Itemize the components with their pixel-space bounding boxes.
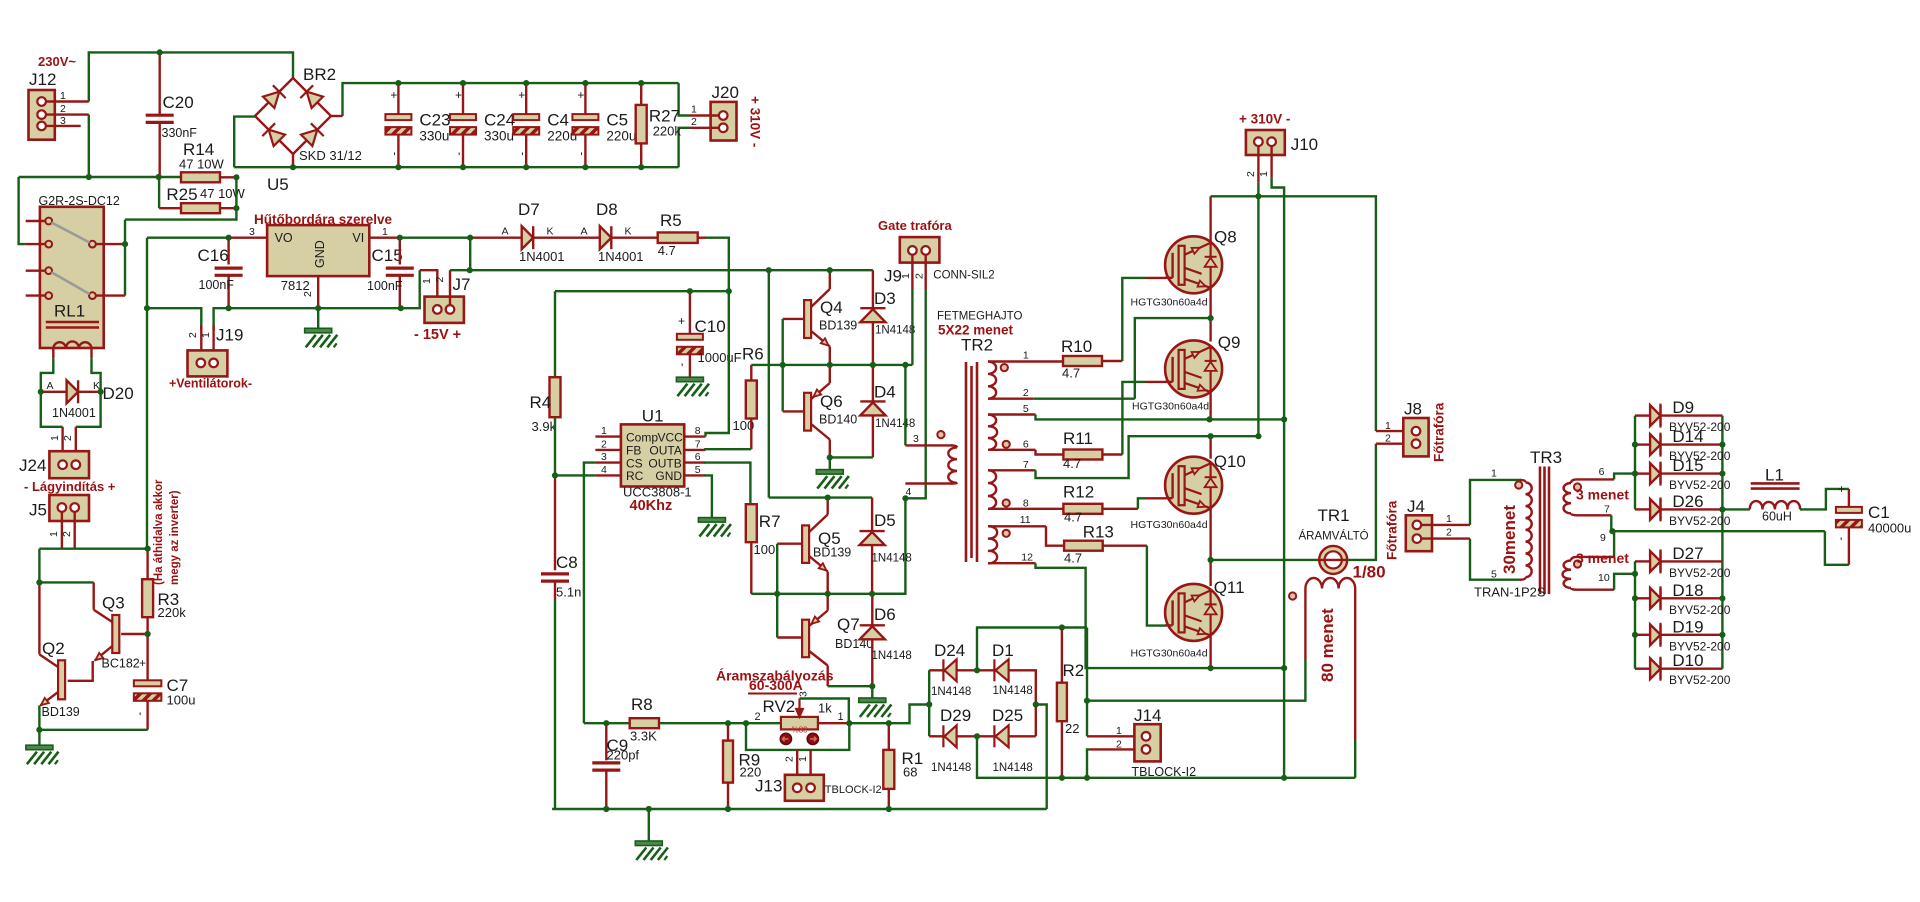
R2 top lead bbox=[1061, 628, 1063, 683]
D6 cathode lead bbox=[871, 594, 873, 626]
svg-text:': ' bbox=[681, 361, 683, 375]
svg-text:4.7: 4.7 bbox=[1063, 456, 1081, 471]
svg-text:1k: 1k bbox=[818, 701, 832, 716]
svg-text:1N4148: 1N4148 bbox=[931, 686, 971, 698]
J9 pin2 lead bbox=[925, 255, 927, 289]
wire quad top to R2 top row bbox=[977, 628, 1087, 671]
svg-text:1: 1 bbox=[797, 756, 809, 762]
RL1 coil arcs bbox=[53, 341, 91, 348]
svg-text:1: 1 bbox=[1491, 468, 1497, 480]
svg-text:+ 310V -: + 310V - bbox=[748, 96, 763, 147]
Q11 collector lead bbox=[1209, 560, 1211, 586]
svg-text:3: 3 bbox=[60, 115, 66, 127]
junction TR2 pin4 branch bbox=[902, 495, 908, 501]
TR2 W1 phase dot bbox=[1001, 364, 1008, 371]
svg-text:BR2: BR2 bbox=[303, 65, 336, 84]
capacitor C1 bbox=[1836, 507, 1862, 528]
svg-text:8: 8 bbox=[1023, 497, 1029, 509]
svg-text:D8: D8 bbox=[596, 200, 618, 219]
capacitor C24 bbox=[450, 114, 476, 135]
7812 VI lead bbox=[369, 236, 400, 238]
svg-text:Főtrafóra: Főtrafóra bbox=[1432, 402, 1447, 462]
U1 pin3 lead bbox=[595, 461, 621, 463]
bridge BR2 diamond bbox=[255, 78, 331, 154]
TR2 pin4 line bbox=[905, 482, 953, 484]
svg-text:7: 7 bbox=[695, 438, 701, 450]
svg-text:1N4001: 1N4001 bbox=[519, 249, 565, 264]
J4 pin1 lead bbox=[1421, 524, 1470, 526]
junction Q8 emitter Q9 collector bbox=[1208, 315, 1214, 321]
svg-text:47 10W: 47 10W bbox=[179, 157, 225, 172]
transistor Q7 body bbox=[802, 620, 809, 658]
svg-text:U5: U5 bbox=[267, 175, 289, 194]
svg-text:2: 2 bbox=[1446, 527, 1452, 539]
junction R27 top bbox=[638, 80, 644, 86]
J5 pin1 pad bbox=[58, 503, 67, 512]
C7 top lead bbox=[146, 634, 148, 680]
resistor R3 bbox=[142, 579, 153, 617]
svg-text:2: 2 bbox=[1385, 433, 1391, 445]
junction minus bus bottom bbox=[1281, 775, 1287, 781]
svg-text:1N4148: 1N4148 bbox=[993, 685, 1033, 697]
svg-text:R5: R5 bbox=[660, 211, 682, 230]
wire +12 to J19.2 bbox=[147, 308, 201, 330]
wire Q5 Q7 base tie bbox=[776, 544, 778, 638]
svg-text:Q7: Q7 bbox=[837, 615, 860, 634]
svg-text:': ' bbox=[139, 710, 141, 724]
capacitor C10 bbox=[677, 334, 703, 355]
J19 pin2 lead bbox=[200, 325, 202, 359]
wire VCC down to pin8 bbox=[706, 291, 729, 436]
diode D6 bbox=[860, 625, 885, 639]
regulator 7812 body bbox=[267, 225, 369, 276]
junction D24 D1 bbox=[974, 667, 980, 673]
J9 pin2 pad bbox=[921, 246, 930, 255]
svg-text:+Ventilátorok-: +Ventilátorok- bbox=[169, 377, 252, 391]
ground under Q7 bbox=[859, 698, 892, 717]
svg-text:R6: R6 bbox=[742, 345, 764, 364]
TR2 pin3 line bbox=[905, 444, 953, 446]
wire R4 bottom to RC bbox=[554, 417, 556, 475]
junction D3 anode bbox=[870, 362, 876, 368]
D6 anode lead bbox=[871, 639, 873, 686]
TR2 pin2 line bbox=[988, 398, 1033, 400]
D10 cathode lead bbox=[1661, 668, 1722, 670]
D9 cathode lead bbox=[1661, 414, 1722, 416]
diode D26 bbox=[1650, 499, 1660, 520]
wire R12 to Q10 gate bbox=[1138, 498, 1146, 509]
TR3 W2 phase dot bbox=[1574, 560, 1581, 567]
svg-text:BYV52-200: BYV52-200 bbox=[1669, 603, 1731, 617]
wire +310 to J8.1 bbox=[1258, 196, 1376, 431]
RV2 wiper arrow bbox=[796, 699, 803, 717]
J24 pin1 lead bbox=[61, 427, 63, 461]
TR2 pin7 line bbox=[988, 469, 1036, 471]
svg-text:GND: GND bbox=[313, 240, 327, 268]
Q8 emitter lead bbox=[1209, 289, 1211, 319]
U1 pin6 lead bbox=[684, 461, 705, 463]
junction J12.2 / R14 line bbox=[86, 174, 92, 180]
D20 anode lead bbox=[41, 391, 67, 393]
svg-text:5: 5 bbox=[1491, 569, 1497, 581]
svg-text:CONN-SIL2: CONN-SIL2 bbox=[933, 270, 994, 282]
resistor R5 bbox=[658, 232, 698, 243]
Q7 collector lead bbox=[827, 666, 829, 687]
R11 right lead bbox=[1102, 453, 1122, 455]
wire R25 to relay contacts bbox=[125, 177, 236, 219]
junction R1 top bbox=[886, 720, 892, 726]
junction Q2 emitter gnd bbox=[36, 727, 42, 733]
resistor R7 bbox=[746, 504, 757, 542]
svg-text:D20: D20 bbox=[103, 384, 134, 403]
svg-text:10: 10 bbox=[1598, 572, 1610, 584]
ground under Q2 bbox=[26, 745, 59, 764]
BR2 bottom stub bbox=[292, 154, 294, 167]
junction C15 bottom gnd bbox=[398, 305, 404, 311]
junction minus bus pin5 bbox=[1281, 416, 1287, 422]
wire cap bank bottom rail bbox=[234, 166, 678, 168]
wire J4.1 to TR3 pin1 bbox=[1470, 480, 1521, 525]
pot RV2 body bbox=[781, 717, 818, 730]
junction J13.2 branch bbox=[743, 720, 749, 726]
D15 anode lead bbox=[1635, 472, 1650, 474]
D5 cathode lead bbox=[871, 498, 873, 531]
junction C20 top bbox=[157, 49, 163, 55]
svg-text:C20: C20 bbox=[163, 93, 194, 112]
ground under C10 bbox=[676, 377, 709, 396]
svg-text:3.3K: 3.3K bbox=[630, 729, 657, 744]
svg-text:RC: RC bbox=[626, 469, 644, 483]
junction VI C15 bbox=[397, 235, 403, 241]
svg-text:47 10W: 47 10W bbox=[200, 186, 246, 201]
junction +310 J10.2 bbox=[1255, 193, 1261, 199]
resistor R27 bbox=[636, 105, 647, 143]
J7 pin2 pad bbox=[446, 305, 455, 314]
Q4 collector bbox=[811, 289, 830, 307]
svg-text:+: + bbox=[455, 88, 462, 102]
J13 pin1 pad bbox=[806, 784, 815, 793]
svg-text:6: 6 bbox=[695, 451, 701, 463]
diode D29 bbox=[943, 725, 956, 747]
svg-text:megy az inverter): megy az inverter) bbox=[169, 490, 181, 585]
svg-text:D10: D10 bbox=[1672, 651, 1703, 670]
R27 bottom lead bbox=[640, 143, 642, 167]
J19 pin2 pad bbox=[197, 359, 206, 368]
wire +15 up to D7 row bbox=[469, 238, 471, 271]
svg-text:A: A bbox=[502, 226, 509, 238]
D18 cathode lead bbox=[1661, 597, 1722, 599]
C8 bottom lead bbox=[554, 582, 556, 600]
TR2 W4 phase dot bbox=[1003, 530, 1010, 537]
connector J8 bbox=[1403, 418, 1428, 456]
junction D19 cathode bbox=[1719, 632, 1725, 638]
svg-text:5.1n: 5.1n bbox=[556, 585, 581, 600]
TR2 primary phase dot bbox=[937, 431, 944, 438]
TR1 secondary leg B bbox=[1354, 589, 1356, 741]
TR3 primary winding bbox=[1526, 482, 1532, 577]
wire TR1 primary right to J8.2 bbox=[1347, 444, 1376, 560]
D7 cathode to D8 anode bbox=[533, 236, 600, 238]
svg-text:D25: D25 bbox=[992, 706, 1023, 725]
D25 cathode lead bbox=[977, 735, 994, 737]
diode D10 bbox=[1650, 658, 1660, 679]
svg-text:': ' bbox=[1840, 535, 1842, 549]
svg-text:L1: L1 bbox=[1765, 466, 1784, 485]
R25 left lead bbox=[159, 207, 181, 209]
wire D20 anode to J24.1 bbox=[41, 392, 63, 427]
svg-text:330u: 330u bbox=[419, 129, 449, 144]
svg-text:BD139: BD139 bbox=[42, 705, 80, 719]
wire relay contact column bbox=[124, 220, 126, 296]
diode D8 bbox=[600, 226, 612, 249]
TR3 pin10 line bbox=[1577, 589, 1614, 591]
capacitor C7 bbox=[134, 680, 162, 701]
svg-text:D14: D14 bbox=[1672, 427, 1703, 446]
R9 bottom lead bbox=[727, 783, 729, 809]
wire pin7 to Q10 collector row bbox=[1036, 436, 1259, 478]
TR3 pin9 line bbox=[1577, 556, 1614, 558]
svg-text:R8: R8 bbox=[631, 695, 653, 714]
D26 anode lead bbox=[1635, 508, 1650, 510]
C15 bottom lead bbox=[399, 276, 401, 308]
svg-text:3 menet: 3 menet bbox=[1576, 550, 1629, 566]
svg-text:R12: R12 bbox=[1063, 483, 1094, 502]
svg-text:- Lágyindítás +: - Lágyindítás + bbox=[24, 479, 116, 494]
junction gnd symbol bbox=[646, 806, 652, 812]
wire Q7 collector D6 anode bbox=[828, 685, 873, 687]
svg-text:68: 68 bbox=[903, 765, 917, 780]
svg-text:+: + bbox=[577, 88, 584, 102]
svg-text:D18: D18 bbox=[1672, 581, 1703, 600]
connector J24 bbox=[49, 451, 89, 478]
R25 right lead bbox=[220, 207, 237, 209]
wire minus bus bbox=[1272, 177, 1285, 778]
wire J5 left down bbox=[38, 549, 40, 583]
RL1 right pin stub y295 bbox=[96, 294, 125, 296]
D18 anode lead bbox=[1635, 597, 1650, 599]
wire pin2 to Q8 emitter bbox=[1135, 318, 1211, 399]
Q4 emitter lead bbox=[829, 347, 831, 365]
RL1 left pin stub y244 bbox=[26, 243, 46, 245]
svg-text:1N4001: 1N4001 bbox=[598, 249, 644, 264]
D9 anode lead bbox=[1635, 414, 1650, 416]
svg-text:HGTG30n60a4d: HGTG30n60a4d bbox=[1131, 519, 1208, 531]
wire coil left to D20 anode bbox=[41, 358, 54, 392]
wire cap bank top rail bbox=[343, 83, 679, 116]
junction R9 bottom bbox=[725, 806, 731, 812]
Q6 collector lead bbox=[829, 440, 831, 458]
resistor R2 bbox=[1057, 683, 1067, 722]
junction Q5 emitter bbox=[825, 591, 831, 597]
svg-text:3: 3 bbox=[601, 451, 607, 463]
svg-text:J5: J5 bbox=[29, 501, 47, 520]
Q10 collector lead bbox=[1209, 436, 1211, 459]
junction Q7 collector gnd bbox=[869, 683, 875, 689]
svg-text:9: 9 bbox=[1600, 532, 1606, 544]
junction R1 bottom bbox=[886, 806, 892, 812]
RL1 switch blade lower bbox=[52, 272, 90, 294]
junction +12 fan branch bbox=[144, 305, 150, 311]
junction TR1 leg A bbox=[1084, 698, 1090, 704]
wire J9.1 down bbox=[911, 289, 913, 365]
connector J13 bbox=[785, 775, 824, 801]
RL1 coil bars bbox=[46, 322, 99, 328]
junction D18 cathode bbox=[1719, 595, 1725, 601]
svg-text:GND: GND bbox=[655, 469, 682, 483]
diode D14 bbox=[1650, 434, 1660, 455]
junction D1 D25 anode branch bbox=[1033, 701, 1039, 707]
diode D9 bbox=[1650, 405, 1660, 426]
svg-text:8: 8 bbox=[695, 425, 701, 437]
junction R14 right bbox=[233, 174, 239, 180]
junction VO C16 bbox=[226, 235, 232, 241]
junction +12 at R3 top bbox=[145, 546, 151, 552]
wire R25 left up bbox=[158, 177, 160, 208]
D14 bar ext bbox=[1659, 433, 1661, 457]
C10 top lead bbox=[689, 291, 691, 334]
C10 bottom lead bbox=[689, 354, 691, 377]
junction 7812 gnd bbox=[315, 305, 321, 311]
svg-text:A: A bbox=[581, 226, 588, 238]
diode D25 bbox=[994, 725, 1008, 747]
D29 anode lead bbox=[957, 735, 977, 737]
junction R2 bottom bbox=[1059, 775, 1065, 781]
wire +310 drop bbox=[1257, 183, 1259, 437]
D5 anode lead bbox=[871, 545, 873, 594]
svg-text:D27: D27 bbox=[1672, 544, 1703, 563]
wire +15 drop for Q5 bbox=[768, 270, 770, 497]
junction D26 cathode L1 bbox=[1719, 506, 1725, 512]
D4 cathode lead bbox=[872, 365, 874, 402]
wire +15 rail bbox=[470, 269, 873, 271]
C1 top lead bbox=[1848, 489, 1850, 507]
svg-text:100nF: 100nF bbox=[199, 278, 235, 292]
junction centre tap bbox=[1609, 528, 1615, 534]
diode D20 bbox=[67, 380, 79, 403]
wire upper anode column bbox=[1634, 416, 1636, 510]
wire R2 row down bbox=[1086, 628, 1088, 737]
svg-text:': ' bbox=[580, 150, 582, 164]
J13 pin2 lead bbox=[796, 750, 798, 784]
TR1 phase dot bbox=[1289, 592, 1296, 599]
Q8 gate lead bbox=[1146, 277, 1166, 279]
svg-text:C1: C1 bbox=[1868, 503, 1890, 522]
junction RC node bbox=[552, 472, 558, 478]
junction Q5 Q7 bases R7 bbox=[774, 591, 780, 597]
junction C4 top bbox=[523, 80, 529, 86]
svg-text:': ' bbox=[521, 150, 523, 164]
D24 anode lead bbox=[957, 669, 977, 671]
svg-text:C5: C5 bbox=[606, 111, 628, 130]
svg-text:3 menet: 3 menet bbox=[1576, 487, 1629, 503]
TR3 pin7 line bbox=[1577, 514, 1611, 516]
D20 cathode lead bbox=[78, 391, 101, 393]
diode D7 bbox=[522, 226, 534, 249]
resistor R12 bbox=[1063, 504, 1102, 514]
wire OUTB to R7 bbox=[704, 463, 750, 505]
C9 bottom lead bbox=[605, 771, 607, 809]
TR3 secondary W1 bbox=[1564, 483, 1571, 513]
svg-text:2: 2 bbox=[1023, 387, 1029, 399]
C16 bottom lead bbox=[227, 276, 229, 308]
svg-text:2: 2 bbox=[914, 273, 926, 279]
svg-text:+: + bbox=[390, 88, 397, 102]
svg-text:1N4148: 1N4148 bbox=[872, 650, 912, 662]
junction J14.2 branch bbox=[1084, 775, 1090, 781]
D19 anode lead bbox=[1635, 634, 1650, 636]
wire R1 node to quad left bbox=[889, 705, 929, 724]
transistor Q6 body bbox=[804, 393, 811, 431]
svg-text:2: 2 bbox=[62, 435, 74, 441]
wire pin2 row bbox=[1033, 398, 1135, 400]
svg-text:D4: D4 bbox=[874, 383, 896, 402]
svg-text:- 15V +: - 15V + bbox=[414, 327, 461, 343]
svg-text:2: 2 bbox=[601, 438, 607, 450]
svg-text:D7: D7 bbox=[518, 200, 540, 219]
svg-text:1: 1 bbox=[49, 435, 61, 441]
J5 pin2 lead bbox=[73, 512, 75, 549]
capacitor C16 bbox=[215, 268, 243, 275]
J4 pin2 pad bbox=[1413, 534, 1422, 543]
J20 pin2 lead bbox=[690, 127, 719, 129]
junction C5 bottom bbox=[582, 164, 588, 170]
svg-text:J10: J10 bbox=[1291, 135, 1318, 154]
C20 bottom lead bbox=[158, 123, 160, 177]
svg-text:K: K bbox=[547, 226, 554, 238]
wire driver B mid row bbox=[751, 593, 905, 595]
svg-text:Q8: Q8 bbox=[1214, 228, 1237, 247]
Q4 base lead bbox=[783, 318, 804, 320]
svg-text:2: 2 bbox=[1245, 171, 1257, 177]
IGBT Q9 bbox=[1165, 340, 1222, 397]
svg-text:100u: 100u bbox=[167, 693, 196, 708]
svg-text:7: 7 bbox=[1604, 504, 1610, 516]
TR2 pin12 line bbox=[988, 562, 1036, 564]
J5 pin2 pad bbox=[70, 503, 79, 512]
U1 pin5 lead bbox=[684, 474, 705, 476]
svg-text:30menet: 30menet bbox=[1500, 505, 1519, 574]
capacitor C4 bbox=[513, 114, 539, 135]
wire R11 to Q9 gate bbox=[1122, 382, 1146, 455]
svg-text:Főtrafóra: Főtrafóra bbox=[1385, 500, 1400, 560]
D14 anode lead bbox=[1635, 443, 1650, 445]
svg-text:D24: D24 bbox=[934, 641, 965, 660]
J12 pin3 lead bbox=[46, 125, 81, 127]
svg-text:1: 1 bbox=[382, 226, 388, 238]
J14 pin1 lead bbox=[1087, 735, 1142, 737]
wire driver mid to TR2 pin3 bbox=[904, 365, 906, 446]
Q3 base lead bbox=[121, 633, 148, 635]
R1 bottom lead bbox=[888, 789, 890, 809]
svg-text:220pf: 220pf bbox=[607, 748, 640, 763]
connector J5 bbox=[49, 495, 89, 521]
connector J7 bbox=[425, 297, 464, 323]
svg-text:1N4148: 1N4148 bbox=[875, 418, 915, 430]
svg-text:VCC: VCC bbox=[658, 430, 684, 444]
junction Q4 collector bbox=[827, 267, 833, 273]
C20 top lead bbox=[158, 52, 160, 114]
junction TR2 pin3 branch bbox=[902, 362, 908, 368]
C24 top lead bbox=[462, 83, 464, 114]
svg-text:TBLOCK-I2: TBLOCK-I2 bbox=[825, 784, 882, 796]
gnd stub Q7 bbox=[871, 686, 873, 698]
resistor R25 bbox=[181, 203, 220, 213]
J13 pin2 pad bbox=[793, 784, 802, 793]
resistor R13 bbox=[1064, 541, 1103, 551]
connector J12 bbox=[29, 90, 55, 140]
junction D15 cathode bbox=[1719, 471, 1725, 477]
svg-text:VI: VI bbox=[352, 231, 364, 245]
